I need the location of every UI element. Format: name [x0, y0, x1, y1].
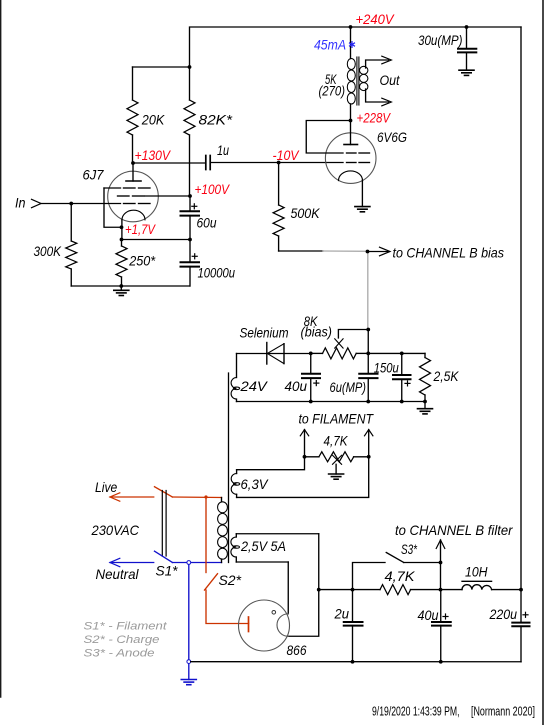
svg-text:6J7: 6J7 [83, 167, 105, 183]
capacitor 2u [352, 590, 354, 622]
wire Neutral [110, 562, 154, 564]
svg-text:Selenium: Selenium [240, 325, 289, 341]
wiper 4,7K to ground [333, 455, 342, 464]
plus 10000u [192, 255, 197, 257]
svg-text:150u: 150u [374, 360, 399, 376]
wiper 8K [338, 330, 368, 339]
arrow to CHANNEL B filter [440, 540, 442, 563]
wire suppressor loop to cathode [104, 188, 122, 227]
svg-text:40u: 40u [285, 378, 308, 394]
svg-text:250*: 250* [128, 253, 155, 269]
winding 24V [236, 354, 238, 378]
svg-text:S2* - Charge: S2* - Charge [84, 634, 160, 646]
svg-text:2u: 2u [334, 606, 350, 622]
node S2 tap [204, 495, 207, 498]
tube 6J7 envelope [108, 171, 159, 222]
node +130V plate [131, 161, 135, 165]
tube 6J7 cathode [122, 210, 145, 220]
tube 866 mercury cathode [277, 614, 288, 637]
node 40u bias bottom [309, 400, 313, 404]
resistor 82K* [189, 67, 191, 100]
node 6u bottom [366, 400, 370, 404]
wire B+ right rail [520, 27, 522, 590]
node 60u bottom [188, 238, 192, 242]
core T-power [228, 373, 230, 563]
transformer T-out primary lead [350, 27, 352, 59]
tube 6J7 screen grid [118, 195, 130, 197]
svg-text:to FILAMENT: to FILAMENT [299, 411, 375, 427]
capacitor 220u [520, 590, 522, 623]
ground 30u [459, 69, 474, 71]
svg-text:866: 866 [287, 642, 307, 658]
svg-text:45mA: 45mA [314, 37, 346, 53]
wire B+ top rail +240V [190, 27, 522, 67]
node 30u tap [465, 25, 469, 29]
wire DC output row [319, 589, 380, 591]
svg-text:S2*: S2* [219, 572, 242, 588]
svg-text:S3*: S3* [401, 541, 417, 557]
resistor 4,7K (filter) [380, 585, 411, 595]
ground 6J7 cathode circuit [120, 286, 122, 290]
inductor 10H [462, 585, 492, 590]
arrow to FILAMENT left [300, 430, 308, 436]
node wiper top [366, 328, 370, 332]
node 150u top [400, 352, 404, 356]
svg-text:to CHANNEL B filter: to CHANNEL B filter [395, 522, 514, 538]
node bias out [366, 250, 370, 254]
resistor 250* [121, 240, 123, 247]
node 40u filter top [439, 588, 443, 592]
node filament right [367, 455, 371, 459]
switch S2 feed [205, 497, 207, 573]
wire bias arrow stub [368, 251, 389, 253]
plus 220u [523, 614, 528, 616]
ground 6V6 cathode [355, 206, 370, 208]
tube 6V6G envelope [325, 133, 376, 184]
svg-text:500K: 500K [291, 205, 321, 221]
arrow to CHANNEL B bias [380, 247, 391, 256]
svg-text:230VAC: 230VAC [91, 522, 140, 538]
winding 6,3V [236, 470, 238, 474]
wire +1,7V node [122, 239, 190, 241]
arrow Out top [382, 56, 392, 64]
tube 6J7 suppressor grid [104, 187, 121, 189]
resistor 4,7K (hum balance) [305, 456, 319, 458]
capacitor 10000u [181, 261, 200, 263]
plus 60u [192, 205, 197, 207]
arrow to FILAMENT right [365, 430, 373, 436]
node filament left [303, 455, 307, 459]
node 866 output [317, 588, 321, 592]
svg-text:220u: 220u [489, 606, 518, 622]
capacitor 40u (bias) [310, 354, 312, 374]
wire mains earth drop [188, 563, 190, 662]
svg-text:to CHANNEL B bias: to CHANNEL B bias [393, 245, 505, 261]
node +100V screen [188, 194, 192, 198]
wire screen loop 6V6 [306, 121, 350, 154]
svg-text:20K: 20K [141, 112, 165, 128]
resistor 20K [132, 67, 134, 100]
wire 6,3V bottom lead [237, 457, 369, 498]
node 2u bottom [351, 660, 355, 664]
tube 6V6G control grid [347, 162, 357, 164]
electrode 866 anode bar [248, 617, 250, 632]
node 2u top [351, 588, 355, 592]
arrow In [32, 199, 42, 207]
arrow Live [110, 493, 120, 501]
diode Selenium [266, 343, 268, 365]
svg-text:4,7K: 4,7K [385, 568, 416, 584]
ground 2,5K [424, 402, 426, 409]
plus 150u [405, 382, 410, 384]
tube 866 envelope [239, 600, 290, 651]
transformer T-out secondary [360, 66, 368, 74]
wire selenium row left [237, 353, 267, 355]
node mains earth tap [187, 561, 191, 565]
winding T-power primary [221, 498, 223, 502]
border right [542, 0, 544, 725]
node 40u filter bottom [439, 660, 443, 664]
svg-text:2,5K: 2,5K [433, 368, 459, 384]
svg-text:+228V: +228V [357, 110, 392, 126]
transformer T-out core [356, 57, 358, 105]
wire Live [110, 496, 154, 498]
svg-text:S1* - Filament: S1* - Filament [84, 621, 168, 633]
resistor 300K [70, 204, 72, 242]
svg-text:10000u: 10000u [198, 265, 236, 281]
wire bottom return rail [191, 661, 521, 663]
switch S3 bypass [353, 563, 386, 590]
switch S1 lower lever [155, 551, 173, 562]
node 250* ground [119, 284, 123, 288]
svg-text:+130V: +130V [135, 147, 172, 163]
wire 866 output feed [318, 534, 320, 590]
svg-text:1u: 1u [217, 142, 229, 158]
wire bias net gray vertical [367, 252, 369, 330]
tube 6J7 control grid [41, 203, 121, 205]
svg-text:Live: Live [95, 479, 117, 495]
wire Neutral to primary [172, 562, 221, 564]
ground 4,7K wiper [329, 473, 344, 475]
ground mains (blue) [188, 664, 190, 680]
plus 40u bias [314, 382, 319, 384]
winding 2,5V [235, 534, 237, 537]
svg-text:-10V: -10V [273, 147, 300, 163]
tube 6V6G plate [350, 121, 352, 145]
svg-text:+100V: +100V [195, 181, 231, 197]
capacitor 40u (filter) [440, 590, 442, 622]
node 2,5K bottom [423, 400, 427, 404]
label underline 10H [462, 580, 492, 582]
svg-text:6,3V: 6,3V [241, 476, 270, 492]
node selenium/40u [309, 352, 313, 356]
svg-text:+240V: +240V [356, 11, 396, 27]
svg-text:9/19/2020 1:43:39 PM,: 9/19/2020 1:43:39 PM, [372, 705, 460, 719]
asterisk 45mA (on wire) [349, 41, 355, 48]
wire gnd rail 6J7 [71, 285, 190, 287]
svg-text:(bias): (bias) [301, 324, 333, 340]
capacitor 6u(MP) [367, 353, 369, 373]
resistor 500K [278, 163, 280, 206]
svg-text:Neutral: Neutral [96, 566, 140, 582]
wire 1u to 6V6 grid -10V [210, 162, 343, 164]
capacitor 60u [189, 196, 191, 211]
svg-text:S1*: S1* [156, 563, 179, 579]
resistor 2,5K [424, 353, 426, 357]
svg-text:2,5V 5A: 2,5V 5A [240, 538, 286, 554]
svg-text:300K: 300K [34, 243, 62, 259]
svg-text:30u(MP): 30u(MP) [418, 32, 463, 48]
wire S2 to 866 anode [206, 590, 249, 624]
svg-text:82K*: 82K* [199, 112, 233, 128]
svg-text:In: In [15, 195, 26, 211]
wire 2,5V top lead [236, 533, 318, 535]
node -10V grid [277, 161, 281, 165]
capacitor 30u(MP) [466, 27, 468, 49]
tube 6J7 plate [132, 163, 134, 181]
node 150u bottom [400, 400, 404, 404]
svg-text:(270): (270) [319, 83, 346, 99]
switch S2 lever [205, 574, 218, 590]
node +240V [349, 25, 353, 29]
switch S1 upper lever [155, 487, 173, 497]
svg-text:+1,7V: +1,7V [125, 221, 156, 237]
svg-text:6V6G: 6V6G [377, 129, 407, 145]
wire 866 cathode top feed [287, 562, 289, 614]
plus 40u filter [443, 616, 448, 618]
wire bias bottom row [237, 401, 426, 403]
svg-text:40u: 40u [418, 607, 439, 623]
node In/300K [69, 202, 73, 206]
wire 6,3V top lead [237, 457, 305, 470]
tube 6V6G cathode [339, 171, 363, 181]
wire plate-load top [133, 66, 190, 68]
wire Live to primary [172, 496, 221, 499]
node +228V [349, 119, 353, 123]
svg-text:60u: 60u [197, 215, 217, 231]
svg-text:4,7K: 4,7K [324, 433, 349, 449]
wire bias row right [368, 352, 425, 354]
tube 6V6G screen grid [347, 152, 357, 154]
svg-text:6u(MP): 6u(MP) [330, 379, 367, 395]
tube 866 gas dot [272, 611, 276, 615]
arrow Out bottom [382, 98, 392, 106]
border left [0, 0, 2, 697]
wire 500K to bias node [279, 250, 323, 252]
switch S1 gang bar [161, 491, 163, 557]
svg-text:Out: Out [380, 72, 401, 88]
capacitor 150u [401, 353, 403, 375]
potentiometer 8K (bias) [311, 352, 323, 354]
node 20K/82K top [188, 65, 192, 69]
svg-text:24V: 24V [239, 378, 268, 394]
arrow Neutral [110, 558, 120, 566]
node cathode +1,7V [120, 225, 124, 229]
node 250* top [120, 238, 124, 242]
node mains earth bottom [187, 660, 191, 664]
node 220u top [519, 588, 523, 592]
svg-text:[Normann 2020]: [Normann 2020] [471, 705, 535, 719]
node S3 right [439, 561, 443, 565]
node 6u top [366, 352, 370, 356]
wire plate to coupling cap [133, 162, 206, 164]
svg-text:10H: 10H [465, 564, 488, 580]
capacitor 1u [205, 156, 207, 170]
wire 2,5V bottom lead [236, 561, 288, 563]
switch S3 lever [386, 553, 404, 563]
svg-text:S3* - Anode: S3* - Anode [84, 647, 155, 659]
